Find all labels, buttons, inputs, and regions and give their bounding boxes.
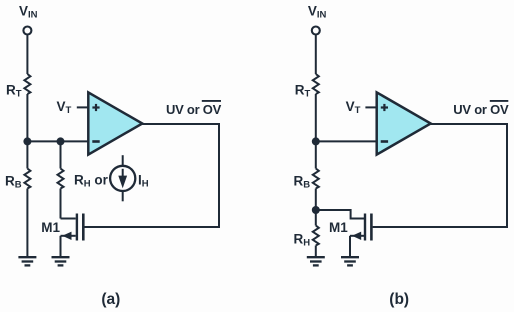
svg-text:UV or OV: UV or OV (166, 102, 222, 117)
svg-text:RB: RB (294, 174, 311, 191)
svg-text:RB: RB (5, 174, 22, 191)
svg-text:RH or: RH or (74, 173, 109, 190)
svg-text:VIN: VIN (19, 3, 38, 20)
svg-text:(b): (b) (389, 291, 409, 308)
svg-text:RT: RT (6, 83, 22, 100)
svg-text:M1: M1 (329, 220, 348, 235)
svg-text:VT: VT (346, 99, 361, 116)
svg-text:RT: RT (295, 83, 311, 100)
svg-text:VT: VT (57, 99, 72, 116)
svg-text:VIN: VIN (308, 3, 327, 20)
svg-text:(a): (a) (101, 291, 120, 308)
svg-text:UV or OV: UV or OV (453, 102, 509, 117)
svg-text:M1: M1 (41, 220, 60, 235)
svg-text:RH: RH (294, 232, 311, 249)
svg-text:IH: IH (138, 173, 149, 190)
